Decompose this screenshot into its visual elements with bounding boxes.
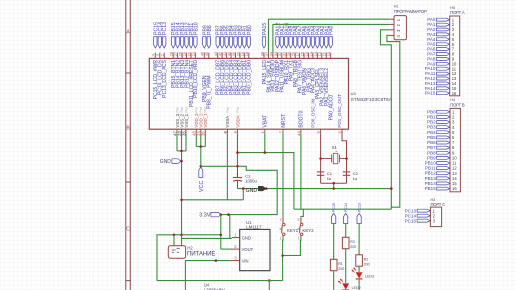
U3 top pin 33 PA12_USBDP xyxy=(276,53,278,59)
wire 3.3V branch to U1 pin1 xyxy=(229,215,231,239)
U3 top pin 38 PA15_LED xyxy=(263,53,265,59)
svg-text:PB7: PB7 xyxy=(427,145,436,150)
LED2 xyxy=(342,283,349,289)
net label flag PB6 xyxy=(220,37,223,48)
svg-text:+: + xyxy=(236,172,239,177)
wire KEY2 bottom to KEY1 line xyxy=(283,236,301,256)
U3 bottom pin 44 BOOT0 xyxy=(300,129,302,134)
svg-text:H4: H4 xyxy=(450,98,455,102)
svg-text:ПОРТ С: ПОРТ С xyxy=(431,202,446,207)
wire GND vertical from VSS xyxy=(181,151,183,235)
U3 top pin 20 PB2_LCD_DB2 xyxy=(239,53,241,59)
net label flag PC15 xyxy=(154,37,157,48)
svg-text:PB9: PB9 xyxy=(427,155,436,160)
svg-text:PB8: PB8 xyxy=(207,25,213,35)
U3 top pin 4 PC15_LCD_#WR xyxy=(154,53,156,59)
svg-text:200: 200 xyxy=(338,267,344,271)
svg-text:PA14: PA14 xyxy=(425,86,436,91)
resistor R2 200 xyxy=(358,224,360,255)
wire bottom GND rail xyxy=(157,280,283,282)
U3 top pin 15 PA5_TRIG xyxy=(308,53,310,59)
net label flag PB14 xyxy=(176,37,179,48)
svg-text:PD1_OSC_OUT: PD1_OSC_OUT xyxy=(337,94,342,128)
U3 bottom pin 5 PD0_OSC_IN xyxy=(320,129,322,134)
svg-text:Pwr: Pwr xyxy=(199,106,203,112)
U3 top pin 41 PB5_LCD_DB5 xyxy=(226,53,228,59)
net label flag PB2 xyxy=(238,37,241,48)
wire VDDA down to VCC rail xyxy=(237,134,239,167)
svg-text:R2: R2 xyxy=(364,258,369,262)
wire 3.3V rail to programmer xyxy=(294,208,391,210)
svg-text:1: 1 xyxy=(280,237,282,241)
svg-text:PC13: PC13 xyxy=(405,208,417,213)
wire KEY1 bottom down xyxy=(282,236,284,281)
net label flag PB11 xyxy=(189,37,192,48)
wire VBAT down xyxy=(264,134,266,153)
U3 top pin 29 PA8_TRIGB xyxy=(294,53,296,59)
svg-text:Pwr: Pwr xyxy=(204,106,208,112)
svg-text:PA0_ADC0: PA0_ADC0 xyxy=(329,95,335,120)
svg-text:C1: C1 xyxy=(327,171,333,176)
svg-text:VSSA: VSSA xyxy=(225,116,230,128)
wire 3.3V horizontal over crystal area xyxy=(238,153,294,210)
LED3 xyxy=(356,272,363,278)
svg-text:PC13: PC13 xyxy=(162,22,168,35)
U3 top pin 45 PB8_TL_PWM xyxy=(208,53,210,59)
U3 top pin 12 PA2_VSENSEL3 xyxy=(321,53,323,59)
H1 pin 3 xyxy=(390,29,394,31)
svg-text:Pwr: Pwr xyxy=(175,106,179,112)
svg-text:PB8_TL_PWM: PB8_TL_PWM xyxy=(207,76,213,109)
svg-text:PB10: PB10 xyxy=(193,22,199,35)
net label flag PA12 xyxy=(276,37,279,48)
net label flag PA7 xyxy=(298,37,301,48)
sheet frame border xyxy=(125,0,127,290)
svg-text:PD0_OSC_IN: PD0_OSC_IN xyxy=(311,99,316,128)
connector H2 power jack xyxy=(168,246,185,259)
net label flag PB15 xyxy=(172,37,175,48)
svg-text:PA11: PA11 xyxy=(425,71,436,76)
wire stub down to U4 below xyxy=(268,281,270,290)
U1 pin 3 VIN xyxy=(232,260,240,262)
U3 top pin 34 PA13_SWDIO xyxy=(272,53,274,59)
svg-text:PA6: PA6 xyxy=(427,47,436,52)
U3 top pin 37 PA14_SWCLK xyxy=(268,53,270,59)
svg-text:1u: 1u xyxy=(353,176,357,181)
U3 top pin 32 PA11_USBDM xyxy=(281,53,283,59)
wire 3.3V down to U1 VOUT xyxy=(220,215,222,250)
wire VSS pins junction xyxy=(176,134,178,151)
U3 top pin 28 PB15_BTN1 xyxy=(172,53,174,59)
svg-text:STM32F103C8T6A: STM32F103C8T6A xyxy=(351,97,393,103)
svg-text:H2: H2 xyxy=(187,245,193,250)
U3 bottom pin 6 PD1_OSC_OUT xyxy=(341,129,343,134)
svg-text:200: 200 xyxy=(364,262,370,266)
svg-text:PA15: PA15 xyxy=(262,23,268,35)
svg-text:H3: H3 xyxy=(431,198,436,202)
U3 top pin 16 PA6_VMON xyxy=(303,53,305,59)
svg-text:14: 14 xyxy=(452,176,457,181)
svg-text:PC13_LCD_#CS: PC13_LCD_#CS xyxy=(162,59,168,98)
net label flag PC13 xyxy=(163,37,166,48)
resistor R3 200 xyxy=(345,224,347,238)
svg-text:10: 10 xyxy=(452,156,457,161)
net label flag PB13 xyxy=(180,37,183,48)
svg-text:PC15: PC15 xyxy=(332,203,336,212)
net label flag PC15 xyxy=(332,213,336,223)
net label flag PB8 xyxy=(207,37,210,48)
capacitor C1 xyxy=(317,171,324,173)
net label flag PC13 xyxy=(357,213,361,223)
wire programmer pin4 loop down xyxy=(387,35,400,207)
net label flag PB4 xyxy=(229,37,232,48)
svg-text:PB5: PB5 xyxy=(427,135,436,140)
svg-text:PB10: PB10 xyxy=(425,161,437,166)
svg-text:2: 2 xyxy=(298,218,300,222)
svg-text:PA15: PA15 xyxy=(425,91,436,96)
svg-text:X1: X1 xyxy=(332,145,338,150)
U3 bottom pin 8 VSSA xyxy=(226,129,228,134)
svg-text:R3: R3 xyxy=(350,240,355,244)
capacitor C2 xyxy=(343,171,350,173)
U3 bottom pin 48 VDD_3 xyxy=(195,129,197,134)
svg-text:15: 15 xyxy=(452,86,457,91)
wire U1 VIN xyxy=(185,261,232,290)
net label flag PB3 xyxy=(234,37,237,48)
U3 top pin 39 PB3_LCD_DB3 xyxy=(235,53,237,59)
net label flag PC14 xyxy=(344,213,348,223)
svg-text:Pwr: Pwr xyxy=(184,106,188,112)
svg-text:PB2: PB2 xyxy=(427,120,436,125)
svg-text:VDD_1: VDD_1 xyxy=(203,113,208,128)
U1 pin 1 GND xyxy=(232,237,240,239)
svg-text:11: 11 xyxy=(452,66,457,71)
svg-text:1: 1 xyxy=(298,237,300,241)
net label flag PA3 xyxy=(316,37,319,48)
wire VDD pins junction xyxy=(195,134,197,147)
net label flag PA9 xyxy=(289,37,292,48)
svg-text:15: 15 xyxy=(452,181,457,186)
wire SWDIO PA13 to programmer pin2 xyxy=(273,24,390,52)
U3 bottom pin 35 VSS_1 xyxy=(185,129,187,134)
svg-text:PA4: PA4 xyxy=(427,37,436,42)
svg-text:PB0: PB0 xyxy=(427,109,436,114)
net label flag PA0 xyxy=(329,37,332,48)
svg-text:10: 10 xyxy=(326,51,331,56)
svg-text:U4: U4 xyxy=(204,282,210,287)
svg-text:14: 14 xyxy=(452,81,457,86)
svg-text:H1: H1 xyxy=(394,5,399,9)
U3 top pin 25 PB12_BTN4 xyxy=(186,53,188,59)
svg-text:PC15: PC15 xyxy=(405,218,417,223)
wire crystal ground xyxy=(321,182,347,184)
wire VCC rail to 3.3V region xyxy=(201,166,277,214)
svg-text:C3: C3 xyxy=(245,173,251,178)
wire H2 to U1 GND pin xyxy=(182,237,232,239)
wire rail to KEY2 jog xyxy=(301,209,303,217)
U3 bottom pin 24 VDD_2 xyxy=(200,129,202,134)
H1 pin 1 xyxy=(390,18,394,20)
H1 pin 2 xyxy=(390,23,394,25)
svg-text:PB10_LCD_#RD: PB10_LCD_#RD xyxy=(193,60,199,98)
svg-text:PB3: PB3 xyxy=(427,125,436,130)
svg-text:Pwr: Pwr xyxy=(195,106,199,112)
wire PD0 to crystal xyxy=(320,134,322,184)
svg-text:PA0: PA0 xyxy=(427,17,436,22)
svg-text:PA0: PA0 xyxy=(329,25,335,35)
net label flag PA10 xyxy=(285,37,288,48)
svg-text:KEY1: KEY1 xyxy=(287,228,299,233)
wire PD1 to crystal xyxy=(342,134,347,184)
net label flag PA4 xyxy=(311,37,314,48)
net label flag PA6 xyxy=(302,37,305,48)
svg-text:PA5: PA5 xyxy=(427,42,436,47)
svg-text:PB15: PB15 xyxy=(425,186,437,191)
U3 top pin 26 PB13_BTN3 xyxy=(181,53,183,59)
power flag VCC xyxy=(199,167,203,177)
svg-text:PB0_LCD_DB0: PB0_LCD_DB0 xyxy=(247,60,253,95)
U3 top pin 27 PB14_BTN2 xyxy=(177,53,179,59)
svg-text:16: 16 xyxy=(452,91,457,96)
U3 top pin 19 PB1_LCD_DB1 xyxy=(243,53,245,59)
svg-text:VIN: VIN xyxy=(242,258,249,263)
svg-text:LM1117: LM1117 xyxy=(246,224,262,229)
svg-text:C2: C2 xyxy=(353,171,359,176)
svg-text:VDDA: VDDA xyxy=(235,115,240,127)
switch KEY1 xyxy=(282,217,284,223)
svg-text:16: 16 xyxy=(452,186,457,191)
capacitor C3 1000u xyxy=(237,166,239,177)
net label flag PA5 xyxy=(307,37,310,48)
svg-text:PA8: PA8 xyxy=(427,56,436,61)
svg-text:GND: GND xyxy=(246,188,258,194)
U3 top pin 31 PA10_RX1 xyxy=(285,53,287,59)
svg-text:Pwr: Pwr xyxy=(226,106,230,112)
svg-text:GND: GND xyxy=(160,159,172,165)
wire SWCLK PA14 to programmer pin1 xyxy=(269,19,390,52)
svg-text:PA2: PA2 xyxy=(427,27,436,32)
U3 bottom pin 36 VDD_1 xyxy=(204,129,206,134)
svg-text:PA1: PA1 xyxy=(427,22,436,27)
U3 top pin 13 PA3_CPLSEL xyxy=(316,53,318,59)
svg-text:KEY2: KEY2 xyxy=(302,228,314,233)
net label flag PA15 xyxy=(262,37,265,48)
svg-text:13: 13 xyxy=(452,171,457,176)
U3 top pin 43 PB7_LCD_DB7 xyxy=(217,53,219,59)
svg-text:VOUT: VOUT xyxy=(242,247,254,252)
svg-text:1000u: 1000u xyxy=(245,178,257,183)
U3 top pin 17 PA7_TESTSIG xyxy=(299,53,301,59)
svg-text:PB13: PB13 xyxy=(425,176,437,181)
U3 top pin 46 PB9_VGEN xyxy=(203,53,205,59)
U3 top pin 10 PA0_ADC0 xyxy=(330,53,332,59)
U1 pin 2 VOUT xyxy=(232,248,240,250)
net label flag PB7 xyxy=(216,37,219,48)
U3 top pin 3 PC14_LCD_DS xyxy=(159,53,161,59)
svg-text:PA3: PA3 xyxy=(427,32,436,37)
net label flag PA2 xyxy=(320,37,323,48)
svg-text:1u: 1u xyxy=(327,176,331,181)
svg-text:PB1: PB1 xyxy=(427,114,436,119)
svg-text:21: 21 xyxy=(191,51,196,56)
wire NRST down to KEY1 xyxy=(282,134,284,218)
svg-text:LED2: LED2 xyxy=(352,286,361,290)
U3 top pin 40 PB4_LCD_DB4 xyxy=(230,53,232,59)
net label flag PC14 xyxy=(158,37,161,48)
svg-text:2: 2 xyxy=(280,218,282,222)
wire VSSA down to GND rail xyxy=(226,134,228,200)
U3 bottom pin 47 VSS_3 xyxy=(176,129,178,134)
svg-text:VBAT: VBAT xyxy=(263,115,269,128)
net label flag PA8 xyxy=(294,37,297,48)
net label flag PB12 xyxy=(185,37,188,48)
net label flag PA1 xyxy=(325,37,328,48)
wire GND mid rail xyxy=(238,188,392,190)
svg-text:12: 12 xyxy=(452,166,457,171)
svg-text:PB0: PB0 xyxy=(247,25,253,35)
U3 top pin 2 PC13_LCD_#CS xyxy=(163,53,165,59)
svg-text:3.3V: 3.3V xyxy=(199,213,210,219)
U3 top pin 30 PA9_TX1 xyxy=(290,53,292,59)
U3 top pin 21 PB10_LCD_#RD xyxy=(194,53,196,59)
U3 bottom pin 1 VBAT xyxy=(264,129,266,134)
wire BOOT0 down to rail xyxy=(300,134,302,210)
svg-text:PA7: PA7 xyxy=(427,52,436,57)
switch KEY2 xyxy=(300,217,302,223)
svg-text:C: C xyxy=(126,226,130,232)
U3 top pin 42 PB6_LCD_DB6 xyxy=(221,53,223,59)
svg-text:45: 45 xyxy=(204,51,209,56)
svg-text:PA12: PA12 xyxy=(425,76,436,81)
svg-text:NRST: NRST xyxy=(281,114,287,128)
svg-text:PB11: PB11 xyxy=(425,166,436,171)
svg-text:13: 13 xyxy=(452,76,457,81)
svg-text:R1: R1 xyxy=(338,262,343,266)
svg-text:PB12: PB12 xyxy=(425,171,437,176)
svg-text:PB6: PB6 xyxy=(427,140,436,145)
svg-text:200: 200 xyxy=(350,245,356,249)
svg-text:PA9: PA9 xyxy=(427,61,436,66)
svg-text:PC13: PC13 xyxy=(358,203,362,212)
wire power section loop xyxy=(157,235,221,281)
crystal X1 xyxy=(321,158,332,160)
wire H2 stubs xyxy=(173,235,175,246)
net label flag PA11 xyxy=(280,37,283,48)
net label flag PB1 xyxy=(243,37,246,48)
svg-text:VCC: VCC xyxy=(199,181,205,192)
svg-text:PA10: PA10 xyxy=(425,66,436,71)
svg-text:18: 18 xyxy=(244,51,249,56)
wire programmer pin3 loop down xyxy=(381,30,392,209)
svg-text:11: 11 xyxy=(452,161,457,166)
svg-text:ПРОГРАММАТОР: ПРОГРАММАТОР xyxy=(394,9,427,14)
svg-text:PC14: PC14 xyxy=(344,203,348,212)
op-amp U3 body (STM32F103C8T6A microcontroller) xyxy=(149,58,348,129)
svg-text:ПОРТ А: ПОРТ А xyxy=(450,10,465,15)
svg-text:PB14: PB14 xyxy=(425,181,437,186)
svg-text:ПОРТ В: ПОРТ В xyxy=(450,103,465,108)
wire GND lower rail xyxy=(182,199,244,201)
svg-text:PB4: PB4 xyxy=(427,130,436,135)
svg-text:BOOT0: BOOT0 xyxy=(299,110,305,127)
U3 top pin 14 PA4_ADC3 xyxy=(312,53,314,59)
net label flag PB0 xyxy=(247,37,250,48)
U3 top pin 18 PB0_LCD_DB0 xyxy=(248,53,250,59)
regulator U1 LM1117 xyxy=(240,229,270,270)
svg-text:GND: GND xyxy=(242,235,251,240)
svg-text:LED3: LED3 xyxy=(365,275,374,279)
svg-text:H5: H5 xyxy=(450,6,455,10)
svg-text:ПИТАНИЕ: ПИТАНИЕ xyxy=(187,250,215,257)
net label flag PB9 xyxy=(203,37,206,48)
U3 bottom pin 23 VSS_2 xyxy=(181,129,183,134)
net label flag PB5 xyxy=(225,37,228,48)
U3 top pin 11 PA1_VSENSEL2 xyxy=(325,53,327,59)
svg-text:Pwr: Pwr xyxy=(236,106,240,112)
svg-text:12: 12 xyxy=(452,71,457,76)
svg-text:VSS_1: VSS_1 xyxy=(184,113,189,127)
svg-text:PB8: PB8 xyxy=(427,150,436,155)
svg-text:PC14: PC14 xyxy=(405,213,417,218)
H1 pin 4 xyxy=(390,34,394,36)
svg-text:U3: U3 xyxy=(351,91,357,96)
svg-text:10: 10 xyxy=(452,61,457,66)
svg-text:Pwr: Pwr xyxy=(180,106,184,112)
svg-text:PA13: PA13 xyxy=(425,81,436,86)
U3 bottom pin 7 NRST xyxy=(282,129,284,134)
net label flag PB10 xyxy=(194,37,197,48)
U3 top pin 22 PB11_LCD_#RESET xyxy=(190,53,192,59)
U3 bottom pin 9 VDDA xyxy=(237,129,239,134)
resistor R1 200 xyxy=(333,224,335,260)
